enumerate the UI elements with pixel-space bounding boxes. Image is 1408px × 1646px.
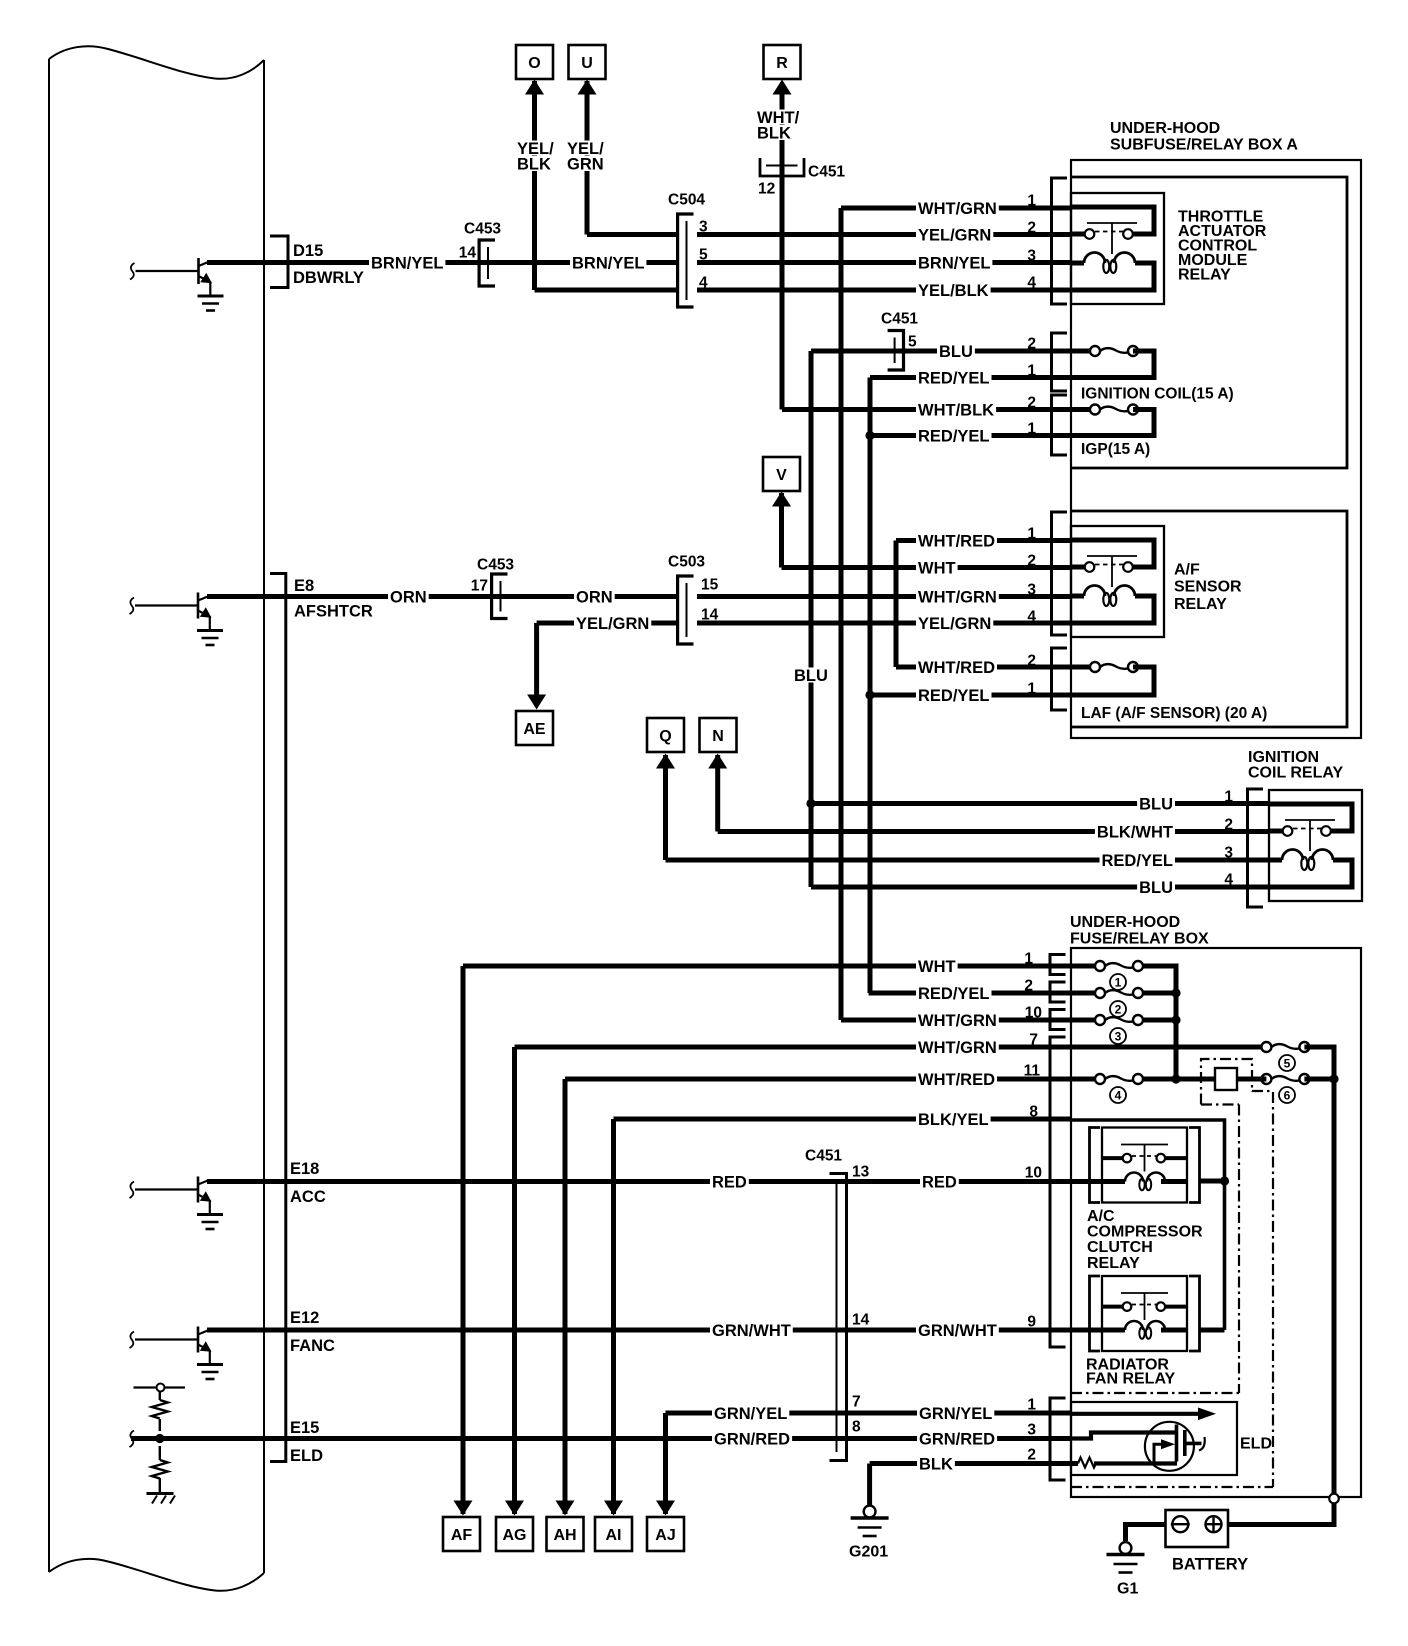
ELD unit boundary bottom of block (dash-dot) <box>1201 1103 1239 1105</box>
wire RED/YEL row (ignition coil fuse pin 1) <box>870 375 1071 380</box>
svg-text:BRN/YEL: BRN/YEL <box>572 254 644 272</box>
ELD box <box>1071 1402 1237 1475</box>
node N (terminal) <box>700 718 737 752</box>
svg-text:3: 3 <box>1027 1422 1036 1439</box>
svg-text:GRN: GRN <box>567 155 604 173</box>
label GRN/WHT (E12 row left) <box>710 1323 793 1338</box>
svg-text:COMPRESSOR: COMPRESSOR <box>1087 1224 1203 1241</box>
label WHT/GRN (relay pin 1) <box>916 201 999 216</box>
svg-text:G201: G201 <box>849 1543 888 1560</box>
arrow into AJ <box>656 1501 675 1516</box>
svg-text:5: 5 <box>908 334 917 351</box>
svg-text:UNDER-HOOD: UNDER-HOOD <box>1110 120 1220 137</box>
label WHT/RED (fuse box pin 11) <box>916 1072 997 1087</box>
label relay K4 A/C <box>1085 1208 1117 1223</box>
UNDER-HOOD FUSE/RELAY BOX outer box <box>1071 948 1361 1497</box>
ground (hatched) below divider <box>147 1492 174 1495</box>
label BLK <box>917 1456 955 1471</box>
label RED/YEL (ign relay pin 3) <box>1100 853 1176 868</box>
svg-text:FANC: FANC <box>290 1337 335 1355</box>
svg-text:5: 5 <box>1284 1056 1291 1070</box>
wire YEL/BLK row (to C504 pin 4) <box>535 288 677 293</box>
svg-text:YEL/GRN: YEL/GRN <box>918 226 991 244</box>
svg-text:AJ: AJ <box>655 1527 675 1544</box>
svg-text:RELAY: RELAY <box>1087 1255 1140 1272</box>
ELD sense divider top wire <box>134 1386 186 1388</box>
wire WHT/GRN row (C503 to A/F relay pin 3) <box>697 594 1071 599</box>
svg-text:3: 3 <box>1115 1029 1122 1043</box>
arrow into AH <box>556 1501 575 1516</box>
fuse 6 <box>1261 1074 1309 1084</box>
wire-break squiggle at E15 <box>130 1431 135 1448</box>
label YEL/GRN (relay pin 2) <box>916 227 993 242</box>
wire E8 ORN row (to C503 pin 15) <box>207 594 676 599</box>
svg-text:1: 1 <box>1024 951 1033 968</box>
svg-text:2: 2 <box>1027 1447 1036 1464</box>
svg-text:4: 4 <box>1115 1088 1122 1102</box>
svg-text:4: 4 <box>1027 609 1036 626</box>
label BLU (ign relay pin 1) <box>1137 796 1175 811</box>
fuse LAF (A/F SENSOR)(20 A) <box>1090 662 1138 672</box>
label YEL/GRN (A/F relay pin 4) <box>916 616 993 631</box>
label GRN/RED (right) <box>917 1431 997 1446</box>
svg-text:E8: E8 <box>294 577 314 595</box>
svg-text:1: 1 <box>1027 681 1036 698</box>
label WHT/BLK (R wire) line1 <box>755 110 801 125</box>
battery <box>1166 1510 1229 1547</box>
fuse 4 <box>1095 1074 1143 1084</box>
svg-text:BLU: BLU <box>939 343 973 361</box>
label RED/YEL (fuse box pin 2) <box>916 986 992 1001</box>
svg-text:2: 2 <box>1027 336 1036 353</box>
arrow into AG <box>505 1501 524 1516</box>
wire WHT/RED row (fuse box pin 11) <box>565 1077 1095 1082</box>
svg-text:14: 14 <box>701 607 719 624</box>
svg-text:C453: C453 <box>464 221 501 238</box>
wire E12 GRN/WHT row (to radiator fan relay coil) <box>207 1328 1102 1333</box>
svg-text:WHT/RED: WHT/RED <box>918 659 995 677</box>
ELD unit boundary horizontal 2 (dash-dot) <box>1071 1486 1273 1488</box>
node AH (terminal) <box>547 1517 584 1551</box>
node AF (terminal) <box>443 1517 480 1551</box>
fuse 5 <box>1261 1042 1309 1052</box>
sub-box (throttle relay + fuses) <box>1071 177 1347 468</box>
wire YEL/GRN vertical (to terminal U) <box>585 81 590 235</box>
relay K2 A/F SENSOR RELAY <box>1071 526 1164 637</box>
wire WHT/GRN row (fuse box pin 10) <box>841 1018 1095 1023</box>
svg-text:C503: C503 <box>668 554 705 571</box>
connector C451 (pins 13/14/7/8) <box>830 1174 847 1461</box>
connector bracket IGP fuse <box>1052 395 1068 455</box>
svg-text:RED/YEL: RED/YEL <box>918 687 990 705</box>
fuse 4 number <box>1110 1087 1126 1103</box>
svg-text:3: 3 <box>1027 582 1036 599</box>
junction fuse 6/battery bus <box>1329 1074 1338 1083</box>
svg-text:ORN: ORN <box>576 588 613 606</box>
wire WHT/GRN row (fuse box pin 7 to fuse 5) <box>515 1045 1267 1050</box>
wire E18 RED row (to A/C compressor relay coil) <box>207 1179 1102 1184</box>
svg-text:WHT/BLK: WHT/BLK <box>918 401 994 419</box>
label YEL/BLK (O wire) line2 <box>515 156 553 171</box>
wire BLK vertical (to G201) <box>867 1464 872 1507</box>
wire RED/YEL row (ignition coil relay pin 3) <box>666 858 1270 863</box>
connector bracket ELD pins 1/3/2 <box>1050 1398 1066 1480</box>
arrow into R <box>773 80 792 95</box>
wire fuse 4 output to diode block <box>1143 1077 1215 1082</box>
node O (terminal) <box>516 45 553 79</box>
svg-text:N: N <box>712 728 724 745</box>
svg-text:D15: D15 <box>293 242 323 260</box>
label ORN (E8 row right) <box>574 589 615 604</box>
connector bracket fuse box pin 10 <box>1050 1010 1066 1030</box>
ELD unit boundary connector segment (dash-dot) <box>1252 1090 1273 1092</box>
wire ELD source <box>1094 1461 1177 1465</box>
resistor R2 <box>152 1460 168 1479</box>
junction RED/YEL at IGP pin 1 <box>865 431 874 440</box>
wire IGP fuse return loop <box>1071 410 1154 436</box>
svg-text:9: 9 <box>1027 1314 1036 1331</box>
relay K5 RADIATOR FAN RELAY <box>1090 1276 1200 1351</box>
arrow into V <box>772 492 791 507</box>
wire YEL/GRN row (to C504 pin 3) <box>587 232 676 237</box>
wire D15 BRN/YEL row (to C504 pin 5) <box>207 260 676 265</box>
label GRN/RED (left) <box>712 1431 792 1446</box>
label YEL/BLK (O wire) line1 <box>515 141 556 156</box>
svg-text:ORN: ORN <box>390 588 427 606</box>
connector C451 pin 12 (on WHT/BLK from R) <box>760 158 804 176</box>
svg-text:4: 4 <box>1224 872 1233 889</box>
svg-text:BLU: BLU <box>794 667 828 685</box>
wire BLU row (ignition coil relay pin 1) <box>811 801 1269 806</box>
ELD unit boundary vertical (dash-dot) <box>1238 1105 1240 1394</box>
node V (terminal) <box>763 457 800 491</box>
svg-text:6: 6 <box>1284 1088 1291 1102</box>
svg-text:17: 17 <box>471 578 488 595</box>
svg-text:G1: G1 <box>1117 1580 1138 1597</box>
fuse 3 <box>1095 1015 1143 1025</box>
svg-text:2: 2 <box>1027 220 1036 237</box>
svg-text:3: 3 <box>699 219 708 236</box>
wire GRN/YEL row (ELD pin 1) <box>666 1411 1072 1416</box>
wire ELD sense arrow <box>1071 1412 1200 1416</box>
svg-text:GRN/RED: GRN/RED <box>919 1430 995 1448</box>
svg-text:1: 1 <box>1027 526 1036 543</box>
svg-text:SUBFUSE/RELAY BOX A: SUBFUSE/RELAY BOX A <box>1110 136 1298 153</box>
svg-text:RED/YEL: RED/YEL <box>918 427 990 445</box>
ELD unit boundary horizontal (dash-dot) <box>1071 1392 1239 1394</box>
svg-text:FUSE/RELAY BOX: FUSE/RELAY BOX <box>1070 930 1209 947</box>
svg-text:7: 7 <box>852 1394 861 1411</box>
connector C503 (pins 15/14) <box>678 576 694 644</box>
label RED/YEL (LAF fuse) <box>916 688 992 703</box>
label WHT (fuse box pin 1) <box>916 959 958 974</box>
wire YEL/GRN vertical (to terminal AE) <box>534 623 539 697</box>
svg-text:2: 2 <box>1027 553 1036 570</box>
node Q (terminal) <box>647 718 684 752</box>
label YEL/BLK (relay pin 4) <box>916 283 991 298</box>
label WHT/GRN (A/F relay pin 3) <box>916 589 999 604</box>
svg-text:RELAY: RELAY <box>1174 596 1227 613</box>
wire A/C relay coil to enclosure edge <box>1200 1179 1225 1184</box>
svg-text:RED: RED <box>922 1173 957 1191</box>
wire divider vertical <box>159 1392 161 1493</box>
connector bracket ignition coil fuse <box>1052 333 1068 391</box>
sub-box (A/F relay + LAF fuse) <box>1071 511 1347 727</box>
svg-text:GRN/WHT: GRN/WHT <box>918 1322 997 1340</box>
label RED/YEL (IGP fuse) <box>916 428 992 443</box>
wire ELD gate <box>1071 1433 1175 1439</box>
fuse 1 <box>1095 961 1143 971</box>
transistor Q1 (DBWRLY driver) <box>130 258 224 311</box>
fuse 3 number <box>1110 1028 1126 1044</box>
transistor Q4 (FANC driver) <box>130 1327 224 1380</box>
svg-text:A/F: A/F <box>1174 561 1200 578</box>
transistor Q2 (AFSHTCR driver) <box>130 593 224 646</box>
resistor in ELD BLK leg <box>1078 1458 1097 1468</box>
svg-text:WHT/GRN: WHT/GRN <box>918 588 997 606</box>
wire vertical (to terminal V) <box>779 493 784 568</box>
wire RED/YEL row (LAF fuse pin 1) <box>870 693 1071 698</box>
wire RED/YEL row (IGP fuse pin 1) <box>870 433 1071 438</box>
wire YEL/GRN row (C503 to A/F relay pin 4) <box>697 621 1071 626</box>
svg-text:14: 14 <box>459 245 477 262</box>
svg-text:C451: C451 <box>808 164 845 181</box>
svg-text:2: 2 <box>1027 653 1036 670</box>
label GRN/YEL (left) <box>712 1406 789 1421</box>
svg-text:11: 11 <box>1024 1063 1041 1080</box>
resistor R1 <box>152 1400 168 1419</box>
fuse 1 number <box>1110 974 1126 990</box>
svg-text:BRN/YEL: BRN/YEL <box>371 254 443 272</box>
wire diode block to fuse 6 <box>1237 1077 1266 1082</box>
arrow into AI <box>604 1501 623 1516</box>
svg-text:RED/YEL: RED/YEL <box>918 369 990 387</box>
junction fuse 4/bus <box>1171 1074 1180 1083</box>
wire fuse 5 output to battery bus <box>1304 1047 1334 1494</box>
wire fuse bus vertical <box>1143 966 1176 1079</box>
wire WHT/BLK vertical (from terminal R) <box>780 93 785 410</box>
svg-text:DBWRLY: DBWRLY <box>293 269 364 287</box>
svg-text:WHT/RED: WHT/RED <box>918 1071 995 1089</box>
svg-text:BLK/WHT: BLK/WHT <box>1097 823 1173 841</box>
svg-text:1: 1 <box>1027 421 1036 438</box>
label BLK/WHT (ign relay pin 2) <box>1095 824 1175 839</box>
svg-text:3: 3 <box>1027 248 1036 265</box>
label RED/YEL (ignition coil fuse) <box>916 370 992 385</box>
label BLU (ignition coil fuse) <box>937 344 975 359</box>
svg-text:2: 2 <box>1115 1002 1122 1016</box>
arrow into N <box>708 754 727 769</box>
connector bracket throttle relay pins 1-4 <box>1052 178 1068 304</box>
node circle <box>157 1384 165 1392</box>
fuse 2 number <box>1110 1001 1126 1017</box>
svg-text:3: 3 <box>1224 845 1233 862</box>
junction A/C coil/enclosure <box>1220 1176 1229 1185</box>
wire BLK/YEL row (fuse box pin 8) <box>614 1117 1072 1122</box>
ELD MOSFET <box>1145 1422 1205 1471</box>
svg-text:WHT: WHT <box>918 559 956 577</box>
svg-text:YEL/BLK: YEL/BLK <box>918 282 989 300</box>
svg-text:YEL/GRN: YEL/GRN <box>576 615 649 633</box>
svg-text:1: 1 <box>1224 789 1233 806</box>
connector C453 pin 14 <box>479 240 495 286</box>
svg-text:ACC: ACC <box>290 1188 326 1206</box>
svg-text:IGNITION COIL(15 A): IGNITION COIL(15 A) <box>1081 386 1234 403</box>
svg-text:SENSOR: SENSOR <box>1174 579 1242 596</box>
wire BLK/WHT vertical (to terminal N) <box>715 755 720 832</box>
wire GRN/YEL vertical (to terminal AJ) <box>663 1413 668 1514</box>
svg-text:WHT/GRN: WHT/GRN <box>918 1012 997 1030</box>
svg-text:RELAY: RELAY <box>1178 267 1231 284</box>
svg-text:BRN/YEL: BRN/YEL <box>918 254 990 272</box>
svg-text:V: V <box>776 467 787 484</box>
junction fuse 3/bus <box>1171 1015 1180 1024</box>
svg-text:GRN/RED: GRN/RED <box>714 1430 790 1448</box>
connector bracket A/F relay pins 1-4 <box>1052 512 1068 635</box>
label GRN/WHT (E12 row right) <box>916 1323 999 1338</box>
svg-text:4: 4 <box>699 275 708 292</box>
svg-text:WHT/RED: WHT/RED <box>918 532 995 550</box>
svg-text:10: 10 <box>1025 1165 1042 1182</box>
relay enclosure box (A/C + radiator fan) <box>1071 1120 1225 1330</box>
svg-text:WHT: WHT <box>918 958 956 976</box>
svg-text:7: 7 <box>1029 1032 1038 1049</box>
UNDER-HOOD SUBFUSE/RELAY BOX A outer box <box>1071 160 1361 738</box>
svg-text:E12: E12 <box>290 1309 319 1327</box>
svg-text:BLK: BLK <box>757 124 791 142</box>
label relay K4 COMPRESSOR <box>1085 1223 1205 1238</box>
fuse IGNITION COIL(15 A) <box>1090 346 1138 356</box>
relay K1 THROTTLE ACTUATOR CONTROL MODULE RELAY <box>1071 193 1164 304</box>
wire WHT row (fuse box pin 1) <box>463 964 1095 969</box>
wire WHT/GRN vertical bus <box>839 208 844 1020</box>
label GRN/YEL (right) <box>917 1406 994 1421</box>
wire WHT vertical (to terminal AF) <box>461 966 466 1514</box>
label WHT/BLK (R wire) line2 <box>755 125 793 140</box>
svg-text:RED: RED <box>712 1173 747 1191</box>
svg-text:UNDER-HOOD: UNDER-HOOD <box>1070 914 1180 931</box>
svg-text:C451: C451 <box>805 1148 842 1165</box>
node AI (terminal) <box>595 1517 632 1551</box>
svg-text:RED/YEL: RED/YEL <box>1101 852 1173 870</box>
ELD unit boundary (dash-dot) around block <box>1201 1059 1252 1105</box>
connector bracket D15 <box>270 236 288 288</box>
svg-text:C451: C451 <box>881 311 918 328</box>
wire WHT/RED row (LAF fuse pin 2) <box>896 665 1095 670</box>
label WHT/GRN (fuse box pin 10) <box>916 1013 999 1028</box>
label BLU (vertical bus) <box>792 668 830 683</box>
svg-text:CLUTCH: CLUTCH <box>1087 1239 1153 1256</box>
svg-text:AG: AG <box>503 1527 527 1544</box>
junction BLU at ignition coil relay pin 1 <box>806 799 815 808</box>
svg-text:BATTERY: BATTERY <box>1172 1555 1248 1573</box>
wire BLK/WHT row (ignition coil relay pin 2) <box>718 829 1269 834</box>
label RED (E18 row left) <box>710 1174 749 1189</box>
wire YEL/BLK vertical (to terminal O) <box>532 81 537 290</box>
label WHT/RED (LAF fuse) <box>916 660 997 675</box>
wire LAF fuse return loop <box>1071 667 1154 695</box>
label BLU (ign relay pin 4) <box>1137 880 1175 895</box>
arrow into Q <box>656 754 675 769</box>
svg-text:GRN/WHT: GRN/WHT <box>712 1322 791 1340</box>
label WHT/GRN (fuse box pin 7) <box>916 1040 999 1055</box>
svg-text:BLK: BLK <box>517 155 551 173</box>
svg-text:8: 8 <box>1029 1104 1038 1121</box>
wire RED/YEL vertical bus <box>868 378 873 994</box>
ground G1 <box>1107 1542 1145 1572</box>
label ORN (E8 row left) <box>388 589 429 604</box>
node AE (terminal) <box>516 711 553 745</box>
connector C451 pin 5 <box>888 331 904 371</box>
wire RED/YEL vertical (to terminal Q) <box>663 755 668 860</box>
label YEL/GRN (U wire) line1 <box>565 141 606 156</box>
wire battery negative to G1 <box>1126 1525 1166 1542</box>
wire ignition coil fuse return loop <box>1071 351 1154 378</box>
PCM body outline <box>49 46 264 1591</box>
label relay K4 CLUTCH <box>1085 1239 1155 1254</box>
svg-text:AI: AI <box>606 1527 622 1544</box>
svg-text:4: 4 <box>1027 275 1036 292</box>
svg-text:13: 13 <box>852 1164 870 1181</box>
svg-text:1: 1 <box>1027 363 1036 380</box>
node R (terminal) <box>764 45 801 79</box>
wire YEL/GRN row (C504 to relay pin 2) <box>697 232 1071 237</box>
connector bracket fuse box pin 1 <box>1050 955 1066 975</box>
label WHT (A/F relay pin 2) <box>916 560 958 575</box>
label BRN/YEL (D15 row left) <box>369 255 445 270</box>
svg-text:GRN/YEL: GRN/YEL <box>714 1405 787 1423</box>
svg-text:14: 14 <box>852 1312 870 1329</box>
wire WHT/RED vertical (to terminal AH) <box>563 1079 568 1514</box>
label YEL/GRN (AE branch) <box>574 616 651 631</box>
svg-text:12: 12 <box>758 181 775 198</box>
svg-text:Q: Q <box>659 728 671 745</box>
label RED (E18 row right) <box>920 1174 959 1189</box>
connector C504 (pins 3/5/4) <box>678 214 694 307</box>
label relay K4 RELAY <box>1085 1255 1143 1270</box>
wire BLU vertical bus <box>809 351 814 887</box>
fuse IGP(15 A) <box>1090 405 1138 415</box>
svg-text:2: 2 <box>1224 817 1233 834</box>
relay K3 IGNITION COIL RELAY <box>1269 790 1362 901</box>
connector bracket ignition coil relay <box>1248 789 1264 907</box>
fuse 6 number <box>1279 1087 1295 1103</box>
wire BLK row (ELD pin 2) <box>870 1461 1078 1466</box>
ground G201 <box>851 1506 889 1536</box>
label WHT/BLK (IGP fuse) <box>916 402 996 417</box>
svg-text:C504: C504 <box>668 192 705 209</box>
wire WHT/GRN vertical (to terminal AG) <box>512 1047 517 1514</box>
wire radiator relay coil to enclosure edge <box>1200 1328 1225 1333</box>
node AJ (terminal) <box>647 1517 684 1551</box>
svg-text:AH: AH <box>553 1527 576 1544</box>
svg-text:A/C: A/C <box>1087 1208 1115 1225</box>
wire fuse 3 output <box>1143 1018 1176 1023</box>
wire YEL/GRN row (to C503 pin 14) <box>537 621 676 626</box>
svg-text:WHT/GRN: WHT/GRN <box>918 1039 997 1057</box>
svg-text:8: 8 <box>852 1419 861 1436</box>
junction divider/E15 <box>155 1434 164 1443</box>
svg-text:R: R <box>776 55 788 72</box>
svg-text:BLU: BLU <box>1139 879 1173 897</box>
wire WHT/RED vertical (A/F pin1 to LAF) <box>894 541 899 668</box>
svg-text:FAN RELAY: FAN RELAY <box>1086 1371 1176 1388</box>
svg-text:IGNITION: IGNITION <box>1248 749 1319 766</box>
wire fuse 2 output <box>1143 991 1176 996</box>
fuse 5 number <box>1279 1055 1295 1071</box>
wire fuse 6 output <box>1304 1077 1334 1082</box>
node U (terminal) <box>569 45 606 79</box>
